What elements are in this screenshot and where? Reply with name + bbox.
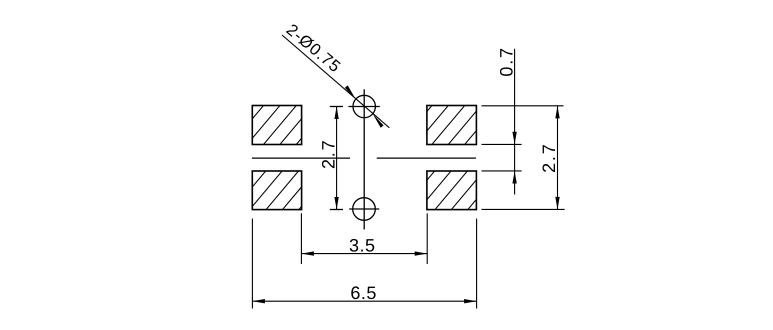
dimension 2.7 pad span: top arrow (up) (555, 106, 559, 119)
dimension text 2-Ø0.75 (283, 21, 345, 77)
pad P3 top-right (hatched) (397, 104, 499, 147)
dimension 2.7 pad span: dim line (557, 106, 559, 209)
extension line bottom of top-right pad (482, 143, 522, 145)
dimension 3.5 pad inner spacing: left arrow (301, 251, 314, 255)
dimension 6.5 overall width: left arrow (252, 299, 265, 303)
extension line bottom of right pad (482, 208, 565, 210)
dimension 2.7 hole pitch: bottom tick (330, 209, 343, 211)
dimension 0.7 pad gap: text (497, 46, 517, 76)
pad P2 bottom-left (hatched) (232, 169, 333, 212)
centerline horizontal of hole H2 (349, 208, 379, 210)
dimension 2.7 hole pitch: text (319, 139, 339, 169)
dimension 6.5 overall width: right extension line (476, 219, 478, 309)
dimension 0.7 pad gap: dim line (514, 49, 516, 195)
dimension 6.5 overall width: right arrow (464, 299, 477, 303)
dimension 2.7 hole pitch: top tick (330, 106, 343, 108)
dimension 2.7 hole pitch: dim line (336, 107, 338, 210)
extension line top of right pad (482, 105, 564, 107)
dimension 2.7 pad span: bottom arrow (down) (555, 197, 559, 210)
dimension 2.7 hole pitch: top arrow (up) (334, 107, 338, 120)
dimension 6.5 overall width: text (350, 283, 377, 303)
dimension 3.5 pad inner spacing: right extension line (426, 213, 428, 264)
svg-text:2.7: 2.7 (539, 142, 559, 172)
arrowhead lower-right of diameter dimension (373, 114, 384, 128)
arrowhead upper-left of diameter dimension (345, 85, 356, 99)
hole H2 bottom circle (353, 198, 376, 221)
svg-text:6.5: 6.5 (350, 283, 377, 303)
dimension 3.5 pad inner spacing: right arrow (415, 251, 428, 255)
svg-text:2.7: 2.7 (319, 139, 339, 169)
svg-text:3.5: 3.5 (349, 236, 376, 256)
dimension 3.5 pad inner spacing: left extension line (300, 213, 302, 264)
hole H1 top circle (353, 95, 375, 117)
leader line of hole diameter dimension (282, 35, 389, 128)
dimension 2.7 hole pitch: bottom arrow (down) (334, 197, 338, 210)
dimension 6.5 overall width: dim line (252, 300, 476, 302)
dimension 3.5 pad inner spacing: dim line (301, 253, 427, 255)
dimension 0.7 pad gap: lower arrow (up) (512, 171, 516, 184)
centerline horizontal right segment (377, 157, 476, 159)
pad P1 top-left (hatched) (229, 104, 331, 147)
pad P4 bottom-right (hatched) (401, 169, 502, 212)
centerline horizontal of hole H1 (348, 106, 379, 108)
dimension 2.7 pad span: text (539, 142, 559, 172)
centerline vertical through holes (363, 89, 365, 229)
dimension 0.7 pad gap: upper arrow (down) (512, 132, 516, 145)
dimension 6.5 overall width: left extension line (251, 219, 253, 309)
extension line top of bottom-right pad (482, 170, 522, 172)
svg-text:0.7: 0.7 (497, 46, 517, 76)
centerline horizontal left segment (252, 157, 350, 159)
dimension 3.5 pad inner spacing: text (349, 236, 376, 256)
